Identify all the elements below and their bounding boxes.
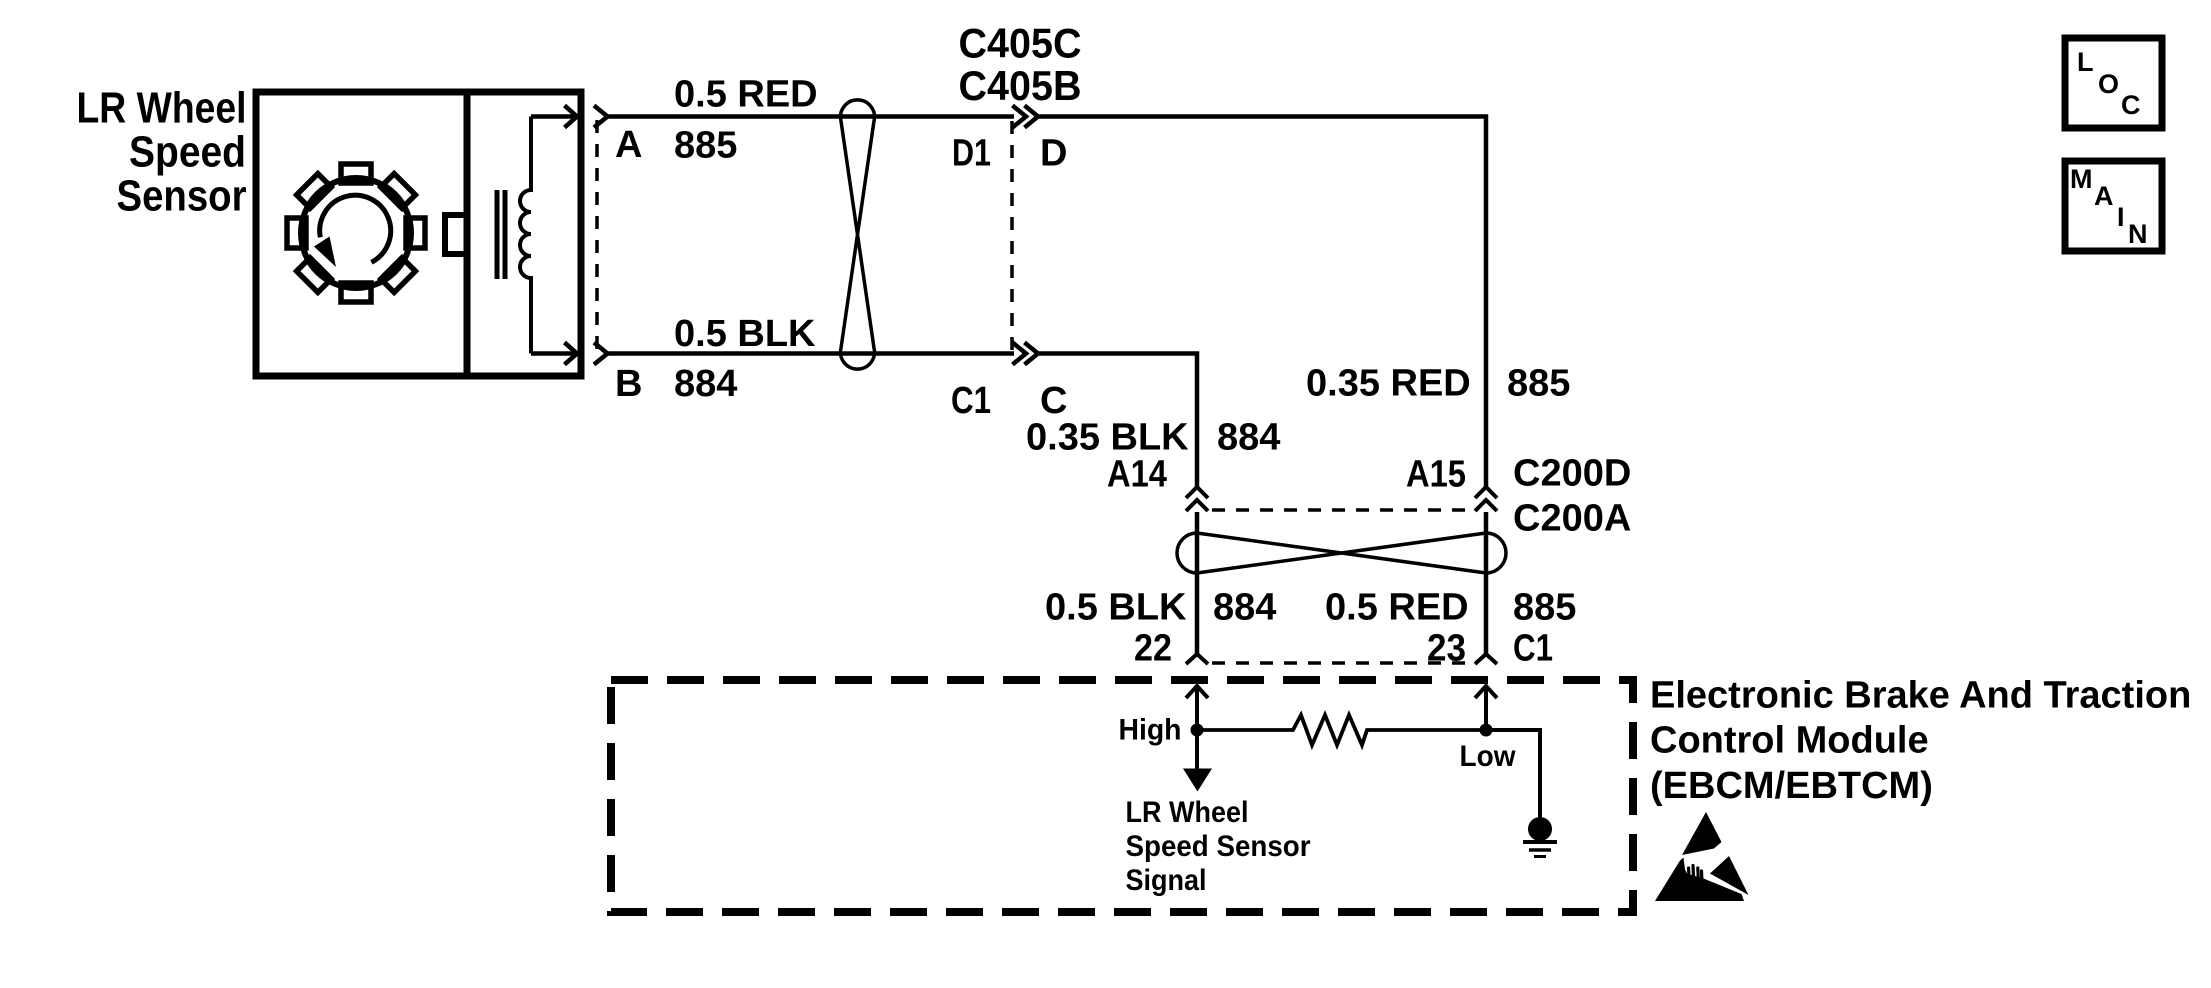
svg-text:884: 884 [674, 363, 737, 405]
wire 884 BLK sensor to C405 [606, 351, 1014, 356]
wire Low to ground [1486, 730, 1540, 817]
svg-text:Sensor: Sensor [117, 172, 247, 221]
svg-text:A: A [615, 124, 642, 166]
svg-text:C200D: C200D [1513, 453, 1631, 495]
svg-text:D1: D1 [952, 133, 991, 175]
coil terminal arrow A (top) [531, 106, 577, 128]
svg-text:L: L [2077, 47, 2094, 77]
svg-text:885: 885 [1513, 587, 1576, 629]
svg-text:A: A [2094, 181, 2114, 211]
svg-text:A15: A15 [1406, 454, 1466, 496]
svg-text:0.35 RED: 0.35 RED [1306, 363, 1471, 405]
EBCM module label [1650, 675, 2191, 808]
svg-text:O: O [2098, 69, 2119, 99]
svg-text:M: M [2070, 164, 2093, 194]
svg-text:C405C: C405C [959, 20, 1082, 67]
sensor label LR Wheel Speed Sensor [77, 84, 247, 221]
svg-text:High: High [1119, 714, 1182, 747]
C405 chevrons wire C [1013, 343, 1039, 365]
svg-text:(EBCM/EBTCM): (EBCM/EBTCM) [1650, 765, 1933, 807]
connector C405 dashed line [1010, 121, 1014, 351]
svg-text:A14: A14 [1107, 454, 1167, 496]
C200 chevrons left wire [1186, 487, 1208, 511]
svg-text:Low: Low [1460, 740, 1517, 773]
wire 885 RED sensor to C405 [606, 114, 1014, 119]
svg-text:C405B: C405B [959, 62, 1082, 109]
coil winding [520, 117, 531, 354]
signal output arrow down [1183, 730, 1212, 792]
svg-text:0.5 BLK: 0.5 BLK [1045, 587, 1187, 629]
svg-text:D: D [1040, 133, 1067, 175]
C200 chevrons right wire [1475, 487, 1497, 511]
svg-text:Speed: Speed [129, 128, 246, 177]
svg-text:C1: C1 [1513, 628, 1553, 670]
label LR Wheel Speed Sensor Signal [1126, 796, 1311, 897]
MAIN box [2065, 161, 2162, 251]
wire 884 between C200 and EBCM [1195, 512, 1200, 654]
svg-text:Control Module: Control Module [1650, 720, 1929, 762]
sensor connector chevron pin A [594, 106, 608, 128]
EBCM internal arrow pin 22 [1186, 686, 1208, 729]
node Low dot [1480, 724, 1493, 737]
svg-text:C1: C1 [951, 380, 991, 422]
EBCM module dashed box [611, 680, 1633, 912]
svg-text:B: B [615, 363, 642, 405]
svg-text:0.5 BLK: 0.5 BLK [674, 313, 816, 355]
svg-text:I: I [2117, 202, 2125, 232]
LOC box [2065, 38, 2162, 128]
svg-text:884: 884 [1217, 417, 1280, 459]
C405 chevrons wire D [1013, 106, 1039, 128]
pickup notch [445, 215, 467, 254]
ESD sensitivity symbol [1655, 812, 1749, 901]
sensor connector dashed line [595, 120, 599, 353]
EBCM internal arrow pin 23 [1475, 686, 1497, 729]
svg-text:Speed Sensor: Speed Sensor [1126, 830, 1311, 863]
tone wheel gear [287, 164, 425, 302]
EBCM connector chevron pin 23 [1475, 654, 1497, 664]
coil terminal arrow B (bottom) [531, 343, 577, 365]
svg-text:885: 885 [1507, 363, 1570, 405]
EBCM connector dashed line [1212, 661, 1473, 665]
svg-text:0.5 RED: 0.5 RED [1325, 587, 1469, 629]
resistor between High and Low [1197, 715, 1486, 745]
svg-text:0.35 BLK: 0.35 BLK [1026, 417, 1189, 459]
EBCM connector chevron pin 22 [1186, 654, 1208, 664]
svg-text:884: 884 [1213, 587, 1276, 629]
ground symbol [1523, 817, 1557, 857]
svg-text:Signal: Signal [1126, 864, 1207, 897]
node High dot [1191, 724, 1204, 737]
svg-text:22: 22 [1134, 628, 1172, 670]
svg-text:LR Wheel: LR Wheel [77, 84, 247, 133]
twisted pair symbol (vertical) [841, 100, 875, 369]
rotation arrow arc [314, 195, 391, 267]
coil core bars [497, 190, 505, 279]
svg-text:0.5 RED: 0.5 RED [674, 74, 818, 116]
sensor box outline [256, 92, 581, 376]
twisted pair symbol (horizontal) [1177, 533, 1506, 573]
svg-text:885: 885 [674, 125, 737, 167]
svg-text:C: C [2121, 90, 2141, 120]
wire 885 between C200 and EBCM [1484, 512, 1489, 654]
sensor connector chevron pin B [594, 343, 608, 365]
svg-text:LR Wheel: LR Wheel [1126, 796, 1249, 829]
C200 dashed line [1212, 508, 1473, 512]
wire D to corner and down to C200 (885 RED) [1037, 117, 1486, 488]
svg-text:C200A: C200A [1513, 498, 1631, 540]
wire C to corner and down to C200 (884 BLK) [1037, 354, 1197, 488]
svg-text:N: N [2128, 219, 2148, 249]
svg-text:Electronic Brake And Traction: Electronic Brake And Traction [1650, 675, 2191, 717]
